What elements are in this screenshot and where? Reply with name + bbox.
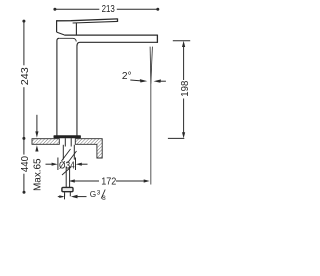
dimension 198 [168, 41, 190, 139]
hose lines [66, 167, 69, 188]
faucet head back edge [56, 20, 58, 32]
svg-text:Max.65: Max.65 [33, 158, 44, 191]
countertop left section [32, 139, 59, 145]
svg-text:440: 440 [20, 156, 31, 172]
svg-text:2°: 2° [122, 71, 132, 82]
svg-text:8: 8 [102, 195, 106, 202]
dimension 243/440 line [22, 20, 25, 194]
column left edge with corner [57, 38, 59, 136]
column right edge [76, 46, 78, 136]
svg-text:243: 243 [20, 67, 31, 85]
drawing line-work group [20, 4, 191, 202]
faucet lever handle underside [73, 21, 118, 23]
spout right edge [156, 35, 158, 43]
shank below counter [63, 145, 74, 160]
svg-text:213: 213 [102, 4, 115, 15]
svg-text:198: 198 [180, 80, 191, 96]
column shoulder inner line [59, 38, 76, 41]
svg-text:Ø34: Ø34 [59, 160, 75, 171]
base plate [54, 135, 81, 138]
G3/8 nut [62, 187, 73, 191]
dimension diameter 34 [46, 158, 88, 171]
dimension Max.65 [35, 115, 38, 152]
faucet head top line [57, 19, 118, 21]
svg-text:172: 172 [101, 177, 116, 188]
water stream 2 degree wedge [150, 47, 152, 185]
countertop right section L-shaped [75, 139, 102, 158]
nut tail [65, 192, 71, 197]
dimension 172 [69, 179, 150, 182]
angle 2 deg arrows [130, 79, 166, 83]
faucet lever handle end cap [117, 18, 119, 22]
faucet head chamfer [57, 32, 65, 35]
dimension G 3/8 [58, 194, 87, 200]
dimension 213 line [53, 8, 159, 11]
break slashes on shank [62, 149, 77, 163]
break slash on hose [62, 167, 71, 175]
svg-text:3: 3 [97, 190, 101, 197]
svg-text:G: G [90, 190, 96, 199]
faucet head bottom / spout top [64, 34, 157, 36]
shank through counter hole [65, 138, 71, 146]
faucet head front edge [75, 23, 77, 35]
spout bottom edge with fillet [77, 42, 158, 46]
